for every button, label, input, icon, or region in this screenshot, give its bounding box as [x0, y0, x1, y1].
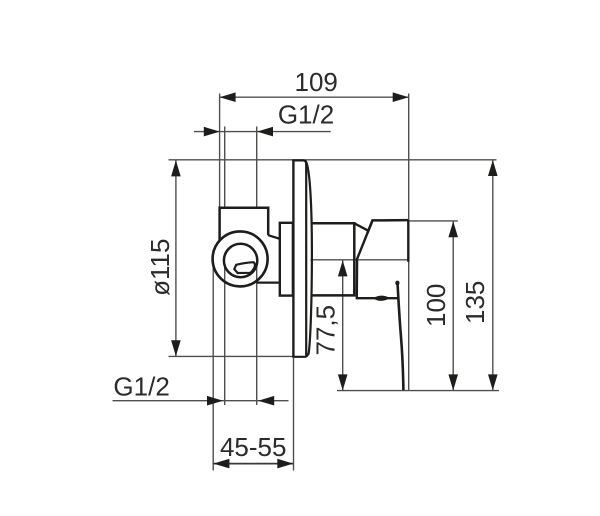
extension line left of 109 — [219, 94, 221, 208]
escutcheon plate left edge — [292, 160, 294, 357]
svg-text:45-55: 45-55 — [220, 432, 287, 462]
valve body top box — [220, 208, 269, 241]
lever arm — [398, 282, 404, 390]
outlet pipe extension right — [256, 266, 258, 406]
handle skirt bottom edge — [356, 297, 398, 299]
baseline — [337, 390, 499, 392]
cartridge centerline — [311, 259, 409, 261]
chamfer box to connector — [268, 235, 280, 239]
outlet pipe extension left — [224, 266, 226, 406]
handle cap back edge — [357, 220, 373, 297]
escutcheon plate bottom edge — [292, 354, 308, 357]
handle top extension for 100 — [409, 220, 458, 222]
dimension line 100 — [452, 221, 454, 390]
svg-text:ø115: ø115 — [145, 239, 175, 296]
svg-text:G1/2: G1/2 — [113, 371, 169, 401]
45-55 extension left — [212, 264, 214, 471]
connector block — [280, 223, 293, 296]
lever blade cross-section — [374, 296, 389, 300]
dimension line o115 — [175, 160, 177, 356]
dimension line 135 — [492, 160, 494, 390]
neck chamfer — [354, 223, 368, 230]
cartridge sleeve — [311, 223, 354, 295]
45-55 extension right — [293, 358, 295, 471]
extension line G1/2 top left — [224, 127, 226, 208]
dimension line 77,5 — [342, 260, 344, 390]
extension line G1/2 top right — [256, 127, 258, 208]
lever arm knob — [395, 281, 399, 286]
dimension line G1/2 top — [194, 131, 331, 133]
valve inner circle (G1/2 boss) — [224, 244, 257, 277]
valve body outer circle — [213, 231, 268, 286]
bottom ledge — [257, 281, 280, 283]
svg-text:G1/2: G1/2 — [278, 100, 334, 130]
escutcheon plate dome curve — [306, 161, 312, 355]
extension line right of 109 — [408, 94, 410, 391]
svg-text:77,5: 77,5 — [311, 305, 341, 356]
wall reference line — [169, 159, 497, 161]
dimension line 45-55 — [213, 463, 293, 465]
svg-text:109: 109 — [295, 67, 338, 97]
escutcheon plate top edge — [292, 160, 306, 355]
svg-text:135: 135 — [460, 281, 490, 324]
leader line G1/2 bottom — [113, 400, 289, 402]
spout detail inside circle — [234, 262, 255, 273]
plate bottom extension line — [169, 355, 294, 357]
dimension line 109 — [220, 96, 409, 98]
handle cap front edge — [407, 220, 409, 262]
svg-text:100: 100 — [421, 284, 451, 327]
handle cap outline — [367, 220, 408, 233]
